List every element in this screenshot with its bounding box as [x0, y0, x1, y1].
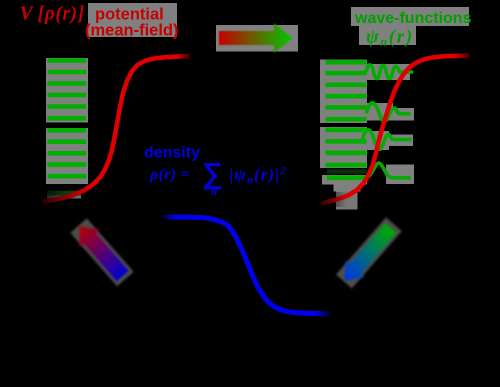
gray patch right curve foot — [334, 185, 361, 192]
left red curve tail fade — [38, 184, 90, 206]
svg-text:ψn(r): ψn(r) — [366, 27, 414, 49]
bottom-right arrow wave-functions to density — [335, 220, 400, 289]
wavefunction 1 wiggle — [366, 65, 413, 79]
gray patch behind wavefunction 2 — [366, 103, 393, 121]
gray block right level box upper — [320, 60, 367, 124]
right red curve top end fade — [455, 49, 471, 60]
wavefunction 3 wiggle — [363, 130, 412, 149]
green energy levels left box — [48, 58, 87, 178]
top arrow potential to wave-functions — [219, 23, 293, 52]
wavefunction 2 wiggle — [367, 103, 411, 121]
red potential curve right — [323, 56, 468, 203]
left red curve top end fade — [177, 51, 191, 62]
gray box behind psi_n label — [359, 26, 416, 45]
svg-text:wave-functions: wave-functions — [354, 10, 472, 27]
svg-text:|ψn(r)|2: |ψn(r)|2 — [230, 165, 287, 186]
gray box behind wave-functions label — [351, 7, 469, 26]
dim green lowest level left box — [47, 191, 81, 196]
right red curve tail fade — [321, 192, 347, 207]
gray block left level box upper — [46, 58, 88, 123]
gray box behind top arrow — [216, 25, 298, 52]
wavefunction 4 ground-state bump — [366, 163, 411, 178]
blue curve left end fade — [162, 211, 176, 222]
gray patch behind wavefunction 1 — [365, 64, 410, 80]
bottom-left arrow density to potential — [69, 217, 133, 284]
gray patch behind wavefunction 4 — [386, 165, 414, 185]
gray box behind bottom-right arrow — [336, 217, 402, 288]
green energy levels right box — [326, 60, 367, 167]
gray strip under right box bottom level — [322, 175, 367, 185]
red potential curve left — [44, 56, 188, 201]
blue density curve — [165, 217, 327, 314]
blue curve right end fade — [316, 308, 329, 319]
svg-text:density: density — [144, 145, 200, 162]
gray patch behind wavefunction 3 — [358, 131, 389, 150]
svg-text:ρ(r) =: ρ(r) = — [149, 166, 190, 183]
gray block right level box lower — [320, 127, 367, 168]
svg-text:(mean-field): (mean-field) — [85, 22, 179, 40]
svg-text:n: n — [211, 186, 217, 198]
very dim level line right box gap — [327, 169, 367, 173]
gray box behind bottom-left arrow — [70, 218, 133, 286]
svg-text:V [ρ(r)]: V [ρ(r)] — [20, 4, 85, 25]
green bottom level line right box extending to wavefunction baseline — [327, 175, 367, 180]
gray box behind potential label — [88, 3, 177, 37]
gray block left level box lower — [46, 128, 88, 184]
gray tab under left box dim level — [47, 193, 81, 199]
